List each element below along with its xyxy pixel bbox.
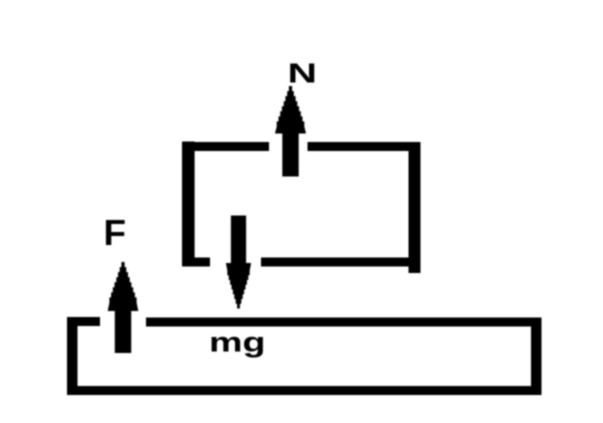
surface (lower slab) left border <box>67 317 78 395</box>
box right border <box>409 142 421 273</box>
svg-text:N: N <box>288 58 318 89</box>
svg-text:mg: mg <box>209 327 266 358</box>
box bottom border left segment <box>182 258 210 267</box>
arrow mg (weight, down) <box>226 216 251 309</box>
surface bottom border <box>67 386 542 395</box>
arrow N (normal force, up) <box>275 86 306 177</box>
surface top border right segment <box>146 318 542 327</box>
box top border right segment <box>308 142 421 151</box>
box bottom border right segment <box>261 258 421 267</box>
svg-text:F: F <box>104 212 127 253</box>
box top border left segment <box>182 142 269 151</box>
surface right border <box>531 318 542 396</box>
surface top border left segment <box>67 317 100 326</box>
arrow F (applied force, up) <box>108 262 139 353</box>
box (upper block) left border <box>182 142 195 266</box>
